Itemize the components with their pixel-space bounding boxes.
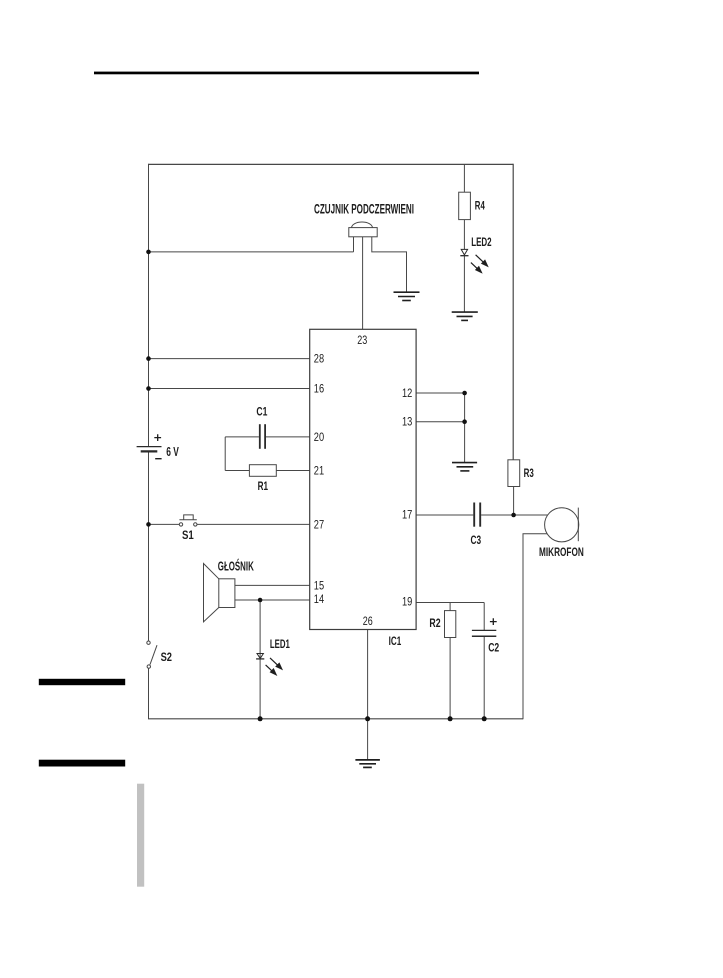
- svg-text:R3: R3: [524, 468, 534, 480]
- switch S2: [147, 641, 157, 668]
- LED D1: [256, 654, 264, 659]
- LED1 light arrows: [266, 658, 282, 675]
- svg-text:S1: S1: [182, 530, 194, 542]
- microphone: [545, 508, 579, 542]
- svg-text:MIKROFON: MIKROFON: [539, 547, 584, 559]
- ground LED2: [452, 312, 478, 320]
- wire R4 to LED2: [463, 220, 465, 250]
- svg-text:CZUJNIK PODCZERWIENI: CZUJNIK PODCZERWIENI: [314, 202, 414, 217]
- IC U1 body: [310, 329, 416, 629]
- ground IR sensor: [394, 292, 420, 300]
- svg-text:17: 17: [402, 510, 412, 522]
- svg-text:LED1: LED1: [270, 639, 290, 651]
- wire pin 15 row: [235, 584, 310, 586]
- node R3 / C3 / mic: [511, 513, 516, 518]
- wire R3 to mic node: [513, 487, 515, 516]
- LED D2: [460, 249, 468, 255]
- wire top rail: [149, 163, 514, 165]
- resistor R1: [249, 465, 276, 477]
- capacitor C1: [260, 424, 265, 449]
- wire pin 16 row: [149, 388, 310, 390]
- node R2 / bottom rail: [448, 716, 453, 721]
- wire R2 to bottom rail: [449, 638, 451, 719]
- wire pin 14 row: [235, 599, 310, 601]
- wire R2 branch: [449, 603, 451, 611]
- wire S1 to rail: [149, 523, 180, 525]
- wire pin 13 row: [416, 421, 465, 423]
- wire LED2 to ground: [463, 256, 465, 313]
- wire right rail: [512, 164, 514, 460]
- wire left rail battery to S2: [148, 452, 150, 642]
- svg-text:6 V: 6 V: [166, 445, 179, 459]
- svg-text:23: 23: [357, 335, 367, 347]
- svg-text:R1: R1: [258, 481, 269, 493]
- LED2 light arrows: [471, 255, 488, 273]
- IR sensor body: [349, 222, 377, 252]
- node pin 26 / bottom rail: [365, 716, 370, 721]
- svg-text:12: 12: [402, 388, 412, 400]
- wire pin 27 row: [197, 523, 310, 525]
- svg-text:R2: R2: [429, 618, 440, 630]
- wire pin 23 (sensor middle leg to IC): [362, 237, 364, 329]
- svg-text:GŁOŚNIK: GŁOŚNIK: [218, 559, 254, 574]
- node LED1 tap on pin 14 wire: [258, 598, 263, 603]
- node IR row / left rail: [146, 250, 151, 255]
- wire pin 28 row: [149, 358, 310, 360]
- wire left rail lower (S2 to bottom): [148, 668, 150, 719]
- svg-text:R4: R4: [475, 201, 485, 213]
- svg-text:C1: C1: [256, 406, 267, 418]
- node C2 / bottom rail: [482, 716, 487, 721]
- capacitor C2 plates: [472, 630, 496, 636]
- svg-text:21: 21: [314, 465, 324, 477]
- wire pin 12 row: [416, 392, 465, 394]
- speaker: [204, 564, 235, 622]
- svg-text:27: 27: [314, 519, 324, 531]
- wire pin 20 row through C1: [225, 436, 310, 438]
- ground pins 12/13: [452, 463, 477, 471]
- svg-text:C3: C3: [471, 535, 482, 547]
- wire C1-R1 loop vertical: [224, 437, 226, 471]
- node pin 12 column: [462, 391, 467, 396]
- node pin 16 / left rail: [146, 386, 151, 391]
- battery 6V plates: [137, 447, 162, 452]
- wire R4 branch from top rail: [463, 164, 465, 192]
- wire LED1 branch: [259, 600, 261, 719]
- svg-text:19: 19: [402, 596, 412, 608]
- svg-text:S2: S2: [161, 652, 172, 664]
- svg-text:28: 28: [314, 353, 324, 365]
- svg-text:20: 20: [314, 432, 324, 444]
- wire pin 17 row through C3: [416, 514, 547, 516]
- switch S1 pushbutton: [179, 515, 197, 526]
- wire pins 12/13 to ground: [464, 393, 466, 462]
- wire pin19 to C2: [483, 603, 485, 631]
- battery plus sign: [154, 434, 161, 441]
- wire pin 26 to bottom rail: [367, 630, 369, 719]
- ground main (pin 26): [355, 760, 380, 768]
- wire C2 to bottom rail: [483, 637, 485, 719]
- svg-text:13: 13: [402, 417, 412, 429]
- wire bottom rail to main ground: [367, 719, 369, 760]
- svg-text:26: 26: [363, 616, 373, 628]
- svg-text:15: 15: [314, 581, 324, 593]
- resistor R2: [445, 611, 456, 638]
- node pin 13 column: [462, 419, 467, 424]
- resistor R3: [508, 460, 520, 487]
- wire pin 21 row through R1: [225, 470, 310, 472]
- resistor R4: [459, 192, 471, 219]
- wire pin 19 row: [416, 602, 484, 604]
- svg-text:IC1: IC1: [389, 636, 402, 648]
- capacitor C3: [474, 503, 480, 527]
- battery minus sign: [155, 458, 161, 460]
- svg-text:14: 14: [314, 594, 325, 606]
- C2 plus sign: [490, 618, 497, 625]
- wire IR sensor supply row: [149, 251, 354, 253]
- node S1 / left rail: [146, 522, 151, 527]
- svg-text:LED2: LED2: [471, 237, 491, 249]
- node LED1 / bottom rail: [258, 716, 263, 721]
- svg-text:C2: C2: [488, 642, 499, 654]
- wire bottom rail: [148, 718, 523, 720]
- wire mic return to bottom rail: [523, 534, 547, 720]
- svg-text:16: 16: [314, 383, 324, 395]
- node pin 28 / left rail: [146, 356, 151, 361]
- wire sensor right leg to ground: [372, 237, 407, 292]
- wire left rail upper (to battery): [148, 164, 150, 446]
